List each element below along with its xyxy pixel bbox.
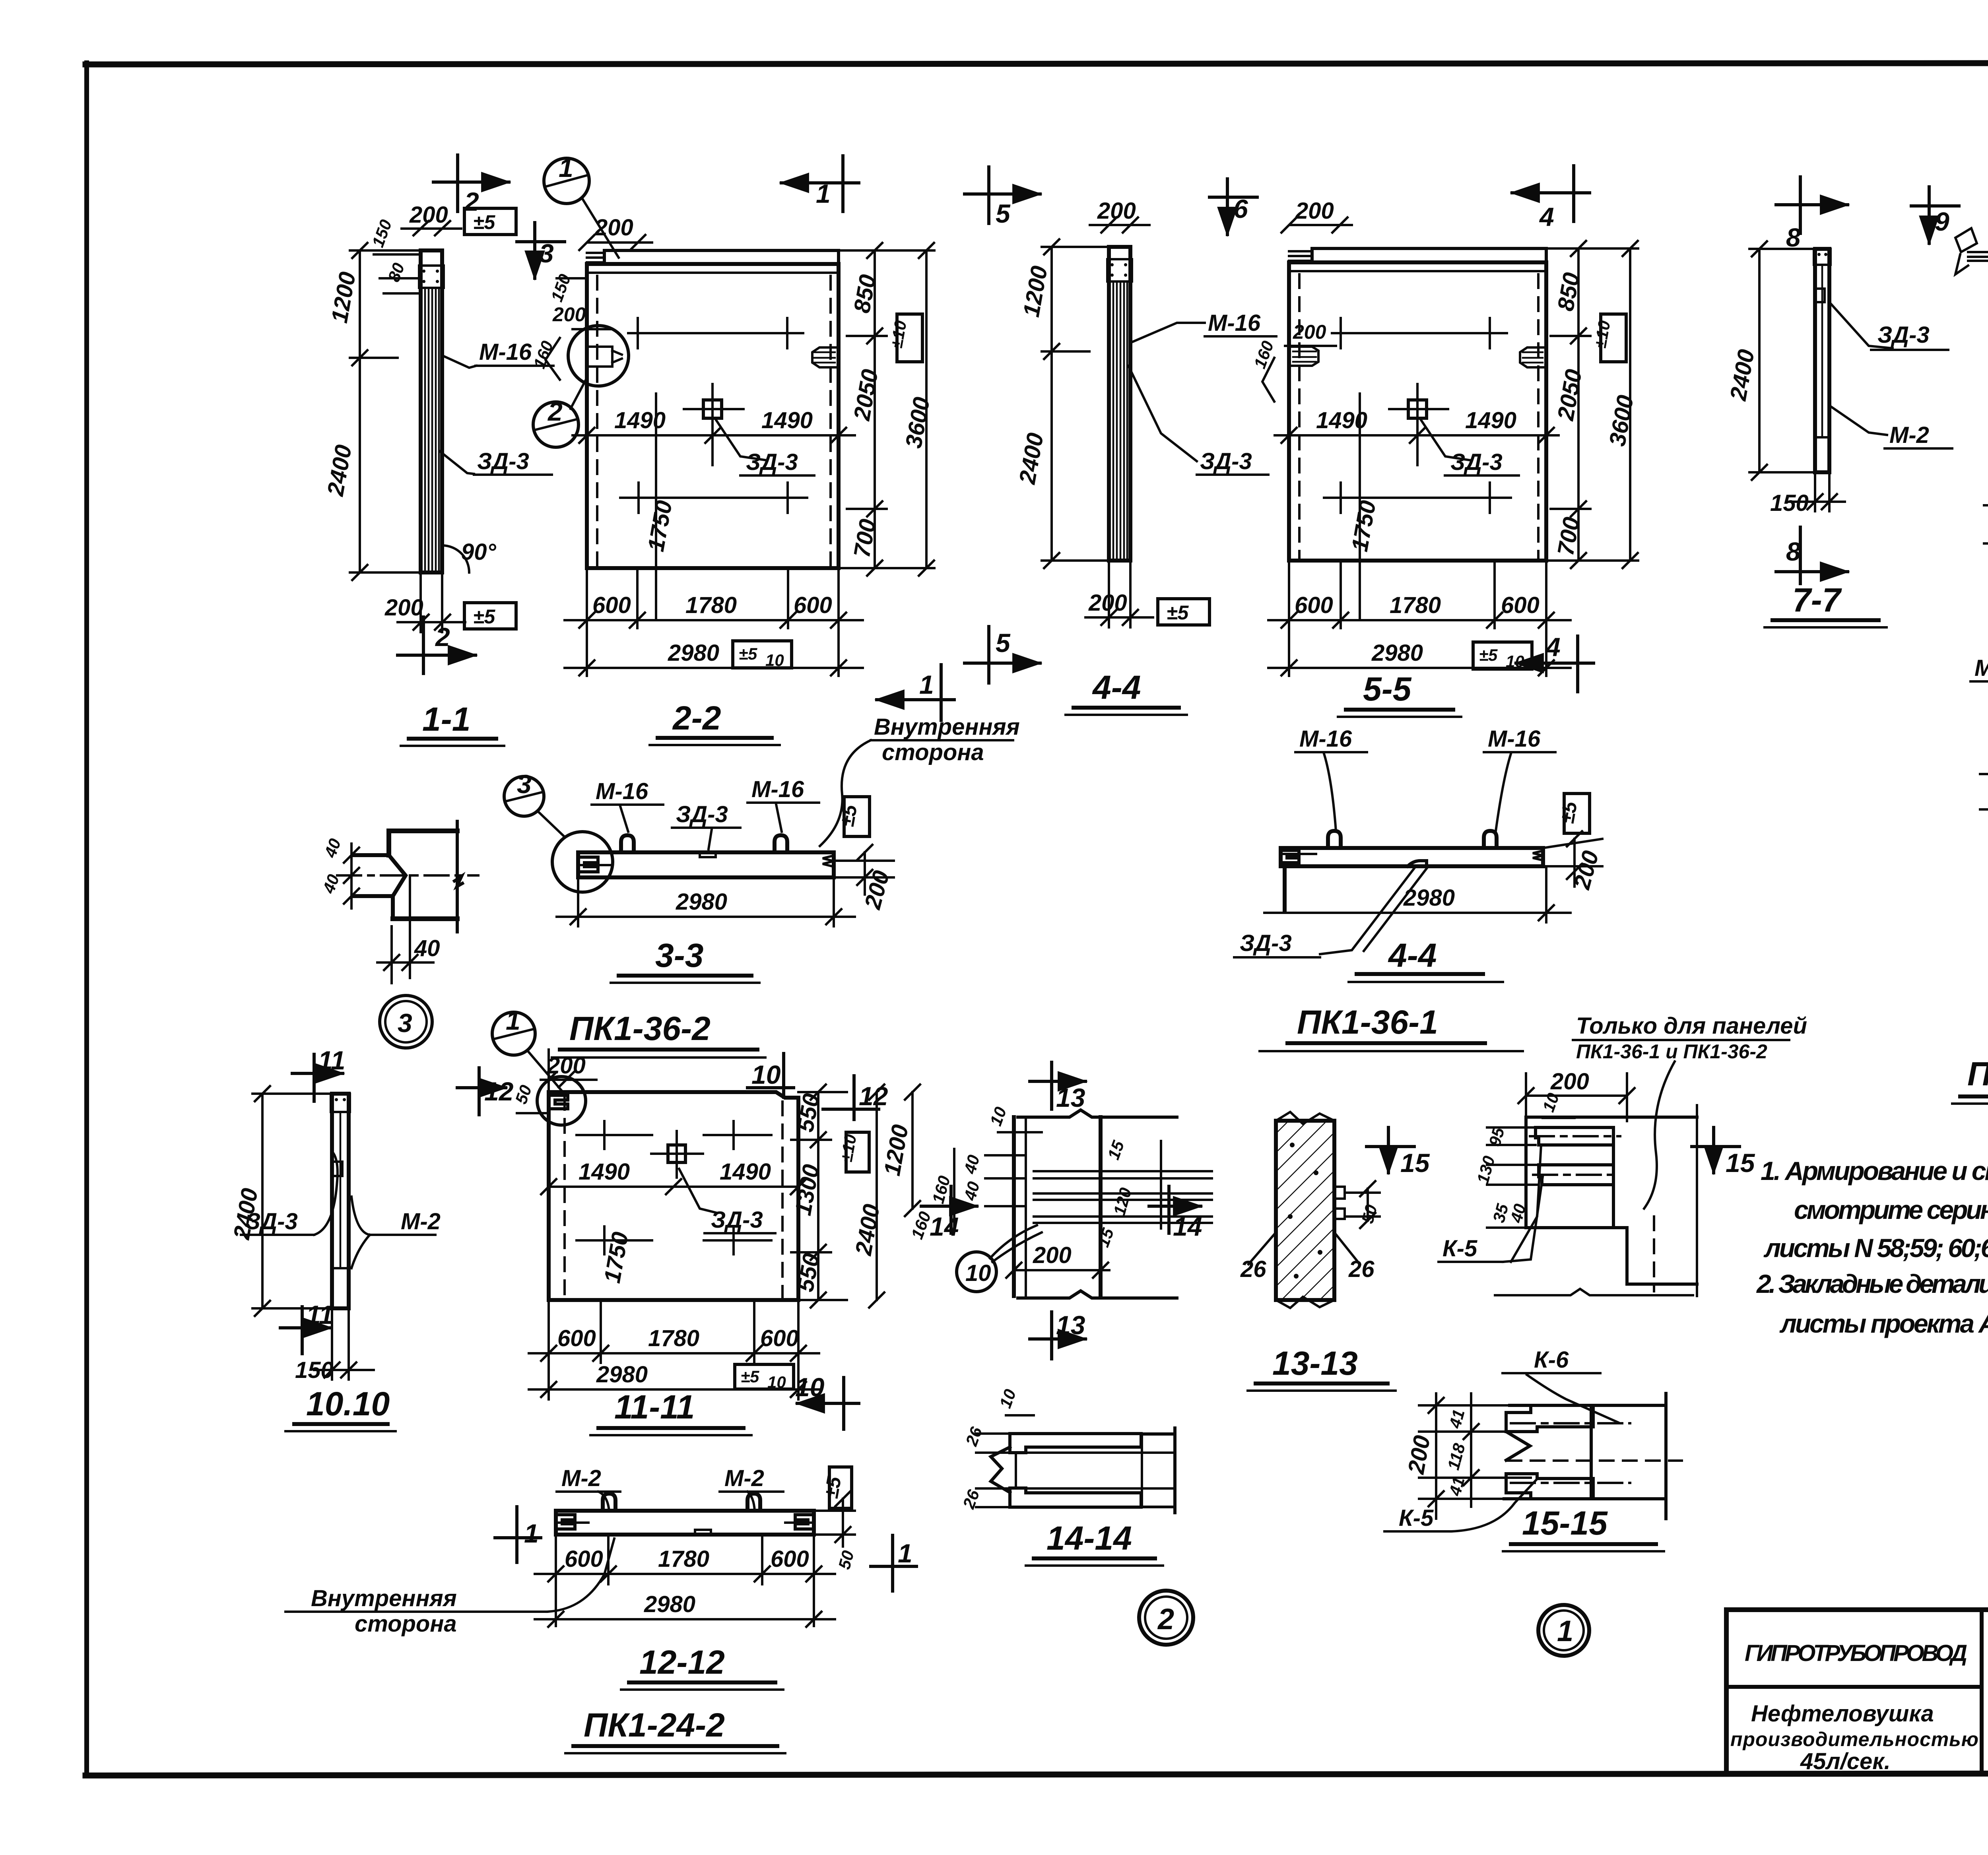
view label 5-5: [1338, 670, 1461, 717]
dim chain 1200 / 2400 left of 4-4: [1014, 239, 1109, 568]
svg-text:1490: 1490: [720, 1159, 771, 1185]
dim 200 right of 3-3: [834, 845, 895, 912]
svg-text:Нефтеловушка: Нефтеловушка: [1751, 1701, 1934, 1727]
title block: [1726, 1610, 1988, 1774]
embed ZD-3 centre of 2-2: [684, 384, 814, 475]
corner mitre detail (detail 3): [337, 821, 478, 932]
svg-text:ЗД-3: ЗД-3: [246, 1209, 298, 1234]
svg-text:2980: 2980: [676, 889, 727, 915]
dim 200 right of 4-4 bar: [1543, 831, 1604, 892]
svg-text:К-5: К-5: [1442, 1236, 1477, 1261]
svg-text:М-2: М-2: [724, 1465, 764, 1491]
svg-text:600: 600: [771, 1546, 809, 1572]
svg-text:2. Закладные детали ЗД-3; М-: 2. Закладные детали ЗД-3; М-2 и М-16 смо…: [1756, 1269, 1988, 1298]
svg-text:1: 1: [816, 179, 831, 208]
view label 4-4 (bar): [1349, 937, 1503, 982]
section mark 11 (bottom of 10-10): [280, 1300, 334, 1354]
view 14-14 sandwich section: [991, 1428, 1175, 1513]
svg-text:5: 5: [996, 628, 1011, 658]
svg-text:1: 1: [1557, 1614, 1573, 1647]
bottom dim 2980 of 2-2: [565, 640, 863, 675]
svg-text:листы N 58;59; 60;69;71; 72;73: листы N 58;59; 60;69;71; 72;73; 80; 85.: [1763, 1233, 1988, 1263]
bottom dim chain 600 1780 600 of 5-5: [1268, 561, 1571, 676]
section mark 10 (bottom right of 11-11): [795, 1372, 859, 1429]
section mark 2 (top): [433, 155, 509, 216]
dim 200 top of 5-5: [1281, 198, 1352, 233]
svg-text:45л/сек.: 45л/сек.: [1800, 1748, 1891, 1774]
svg-text:Внутренняя: Внутренняя: [874, 714, 1020, 740]
svg-text:1490: 1490: [1465, 407, 1516, 433]
section mark 15 (left, near 13-13): [1367, 1127, 1430, 1178]
view 11-11 panel outline: [549, 1092, 798, 1300]
svg-text:М-16: М-16: [1208, 310, 1261, 336]
embed M-16 left edge of 2-2: [530, 303, 629, 386]
view label 7-7: [1765, 581, 1887, 627]
svg-text:1490: 1490: [614, 407, 666, 433]
detail callout circle 1 of 11-11: [492, 1006, 565, 1094]
svg-text:М-2: М-2: [401, 1209, 441, 1234]
svg-text:±5: ±5: [741, 1367, 759, 1386]
right dim chain 2050 3600 of 5-5: [1546, 241, 1639, 568]
dim 2980 of 4-4 bar: [1264, 866, 1571, 922]
svg-text:М-2: М-2: [1889, 422, 1929, 448]
svg-text:6: 6: [1233, 194, 1248, 223]
view 5-5 panel: top formwork bar: [1289, 248, 1546, 262]
svg-text:1490: 1490: [579, 1159, 630, 1185]
view label 14-14: [1026, 1519, 1163, 1566]
svg-text:10: 10: [965, 1260, 991, 1286]
outer chain 1200 160 with section 14 marks: [879, 1085, 977, 1242]
svg-text:2-2: 2-2: [672, 699, 721, 737]
view label 11-11: [590, 1388, 751, 1435]
dims of edge detail: [928, 1104, 1161, 1278]
view 5-5 panel outline: [1289, 262, 1546, 561]
svg-text:1780: 1780: [648, 1325, 699, 1351]
section mark 1 (top right): [781, 156, 859, 212]
leader K-5 of view 15-15: [1384, 1479, 1537, 1531]
svg-text:15-15: 15-15: [1522, 1504, 1608, 1542]
dim 1490 1490 in 11-11: [541, 1159, 806, 1194]
svg-text:13: 13: [1056, 1310, 1085, 1340]
svg-text:±5: ±5: [1479, 646, 1498, 664]
leader ZD-3 on 4-4: [1128, 366, 1268, 475]
view 9-9 leaders M-2 ZD-3 M-2: [1971, 655, 1988, 726]
embed right edge of 5-5: [1520, 347, 1546, 367]
embed ZD-3 centre of 5-5: [1389, 384, 1519, 475]
embed plate M-16 at top: [419, 266, 444, 288]
section mark 12 (top left of 11-11): [457, 1068, 514, 1115]
bottom dim 2980 of 8-8: [1984, 516, 1988, 551]
svg-text:М-16: М-16: [596, 778, 648, 804]
dim chain 600 1780 600 of 9-9: [1980, 737, 1988, 819]
view 2-2 panel: top formwork bar: [587, 250, 839, 264]
view 2-2 panel outline: [587, 264, 839, 568]
svg-text:2980: 2980: [668, 640, 719, 666]
svg-text:М-16: М-16: [1488, 726, 1541, 752]
panel edge detail with callout 10: [1014, 1110, 1212, 1298]
bottom dim chain 600 1780 600 of 11-11: [529, 1300, 819, 1399]
svg-text:±5: ±5: [1167, 602, 1189, 624]
view 12-12 leaders M-2 M-2: [557, 1465, 783, 1511]
svg-text:600: 600: [760, 1325, 799, 1351]
svg-text:1: 1: [524, 1519, 539, 1548]
leaders ZD-3 / M-2 on 10-10: [241, 1153, 441, 1268]
svg-text:2: 2: [1157, 1603, 1174, 1636]
dim 200 top of 2-2: [579, 215, 652, 250]
svg-text:К-6: К-6: [1534, 1347, 1569, 1373]
svg-text:2980: 2980: [1371, 640, 1423, 666]
notes heading: [1952, 1055, 1988, 1104]
section mark 13 (bottom of edge detail): [1030, 1310, 1085, 1359]
dim 200 +-5 top of 1-1: [402, 202, 516, 235]
detail callout circle 2: [533, 381, 585, 447]
bottom dim chain 600 600 of 8-8: [1984, 474, 1988, 553]
detail callout circle 3 (small): [504, 769, 565, 837]
centre line row 2 of 11-11: [577, 1226, 771, 1285]
view label 10.10: [285, 1385, 396, 1431]
dim 2980 of 12-12: [535, 1591, 835, 1627]
dim 2400 left of 10-10: [229, 1086, 332, 1316]
svg-text:200: 200: [1033, 1242, 1072, 1268]
dim 200 top of 11-11: [537, 1050, 596, 1125]
svg-text:±5: ±5: [836, 803, 862, 829]
svg-text:200: 200: [409, 202, 448, 228]
svg-text:±5: ±5: [739, 644, 757, 663]
dim 200 +-5 bottom of 4-4: [1085, 561, 1209, 627]
svg-text:ЗД-3: ЗД-3: [746, 449, 798, 475]
view 12-12 lifting loops: [603, 1494, 760, 1511]
tolerance box +-5 of 3-3: [836, 797, 870, 836]
svg-text:7-7: 7-7: [1792, 581, 1842, 619]
svg-text:листы проекта АС-20, 24, 26.: листы проекта АС-20, 24, 26.: [1779, 1309, 1988, 1338]
svg-text:26: 26: [1348, 1256, 1375, 1282]
svg-text:±5: ±5: [473, 605, 495, 628]
section mark 1 (left of 12-12): [495, 1507, 541, 1562]
section mark 4 (bottom right): [1516, 632, 1594, 692]
svg-text:сторона: сторона: [882, 739, 984, 765]
inner side note (for 3-3): [820, 714, 1020, 846]
svg-text:±5: ±5: [1556, 799, 1582, 825]
svg-text:200: 200: [552, 303, 586, 326]
detail 3 dims 40: [319, 836, 440, 983]
svg-text:1: 1: [919, 670, 934, 699]
svg-text:5-5: 5-5: [1363, 670, 1412, 708]
leader ZD-3 on 1-1: [440, 448, 552, 475]
view 12-12 panel bar: [556, 1511, 814, 1535]
panel joint detail (15 top): [1495, 1105, 1697, 1296]
svg-text:11: 11: [306, 1300, 334, 1329]
svg-text:М-16: М-16: [479, 339, 532, 365]
view 4-4 (PK1-36-1) panel bar: [1281, 848, 1543, 910]
centre line row 1 of 2-2: [628, 318, 803, 348]
svg-text:13-13: 13-13: [1272, 1345, 1358, 1382]
svg-text:смотрите серию 3.900-2, выпу: смотрите серию 3.900-2, выпуск2: [1794, 1195, 1988, 1224]
svg-text:1-1: 1-1: [422, 700, 470, 738]
note: only for panels PK1-36-1, PK1-36-2: [1573, 1013, 1807, 1209]
svg-text:8: 8: [1786, 223, 1801, 252]
svg-text:1780: 1780: [685, 592, 737, 618]
svg-text:11-11: 11-11: [614, 1388, 695, 1426]
section mark 13 (top of edge detail): [1030, 1062, 1085, 1112]
svg-text:1: 1: [506, 1006, 520, 1035]
svg-text:М-2: М-2: [561, 1465, 601, 1491]
dim 150 bottom of 10-10: [295, 1308, 374, 1383]
svg-text:150: 150: [295, 1357, 334, 1383]
svg-text:1: 1: [898, 1539, 912, 1568]
svg-text:1490: 1490: [1316, 407, 1367, 433]
dim 2400 left of 7-7: [1725, 241, 1815, 480]
view 4-4 (PK1-36-1) leaders M-16 M-16: [1295, 726, 1555, 831]
small dims 150 80 top left of 1-1: [368, 217, 421, 293]
svg-text:12-12: 12-12: [639, 1643, 725, 1681]
svg-text:2980: 2980: [1403, 885, 1455, 911]
view 1-1 panel side strip: [419, 250, 444, 572]
svg-text:8: 8: [1786, 537, 1801, 566]
dim 150 bottom of 7-7: [1770, 472, 1845, 516]
small dim 50 left of 11-11: [511, 1083, 549, 1113]
svg-text:1780: 1780: [658, 1546, 709, 1572]
view 10-10 panel side strip: [331, 1094, 350, 1308]
dim 1490 1490 in 2-2: [573, 394, 855, 620]
svg-text:2980: 2980: [644, 1591, 695, 1617]
view 7-7 panel side strip: [1814, 249, 1831, 472]
svg-text:10: 10: [751, 1060, 781, 1089]
svg-text:10: 10: [795, 1372, 825, 1402]
section mark 6 (top of 5-5): [1209, 179, 1257, 235]
embed M-16 right edge of 2-2: [812, 347, 839, 367]
svg-text:13: 13: [1056, 1083, 1085, 1112]
svg-text:200: 200: [594, 215, 633, 241]
view 4-4 panel side strip: [1107, 247, 1132, 561]
view label 13-13: [1248, 1345, 1396, 1391]
svg-text:15: 15: [1400, 1148, 1430, 1178]
dim chain 1200 / 2400 left of 1-1: [322, 243, 421, 580]
svg-text:10.10: 10.10: [306, 1385, 390, 1422]
dims 26 50 26 of 13-13: [1240, 1181, 1381, 1282]
svg-text:4-4: 4-4: [1092, 669, 1141, 706]
angle 90 deg mark: [442, 539, 497, 572]
svg-text:ПК1-24-2: ПК1-24-2: [584, 1706, 725, 1744]
dim chain 600 1780 600 of 12-12: [535, 1535, 835, 1626]
svg-text:2: 2: [547, 397, 563, 426]
leader ZD-3 on 7-7: [1829, 302, 1948, 350]
right dim chain 850 2050 700 of 2-2: [839, 243, 935, 576]
section mark 2 (bottom): [398, 617, 476, 673]
svg-text:М-2: М-2: [1974, 655, 1988, 681]
view label 15-15: [1503, 1504, 1664, 1551]
svg-text:Внутренняя: Внутренняя: [311, 1585, 457, 1611]
svg-text:производительностью: производительностью: [1730, 1728, 1978, 1750]
leader M-2 on 7-7: [1829, 406, 1952, 448]
svg-text:10: 10: [767, 1373, 786, 1391]
svg-text:1780: 1780: [1390, 592, 1441, 618]
svg-text:600: 600: [592, 592, 631, 618]
view label 4-4: [1066, 669, 1187, 715]
dims 200 41 118 41 of 15-15: [1403, 1393, 1531, 1519]
svg-text:200: 200: [1295, 198, 1334, 224]
bottom dim 2980 of 5-5: [1268, 640, 1571, 675]
svg-text:40: 40: [414, 935, 440, 961]
tolerance box +-5 of 4-4 bar: [1556, 794, 1590, 833]
svg-text:9: 9: [1935, 207, 1949, 236]
svg-text:М-16: М-16: [751, 776, 804, 802]
centre line row 1 of 5-5: [1332, 318, 1507, 348]
svg-text:3: 3: [539, 239, 554, 268]
dims of joint detail (15 top): [1473, 1069, 1635, 1228]
svg-text:600: 600: [1501, 592, 1540, 618]
svg-text:10: 10: [765, 651, 784, 669]
centre line row 1 of 11-11: [577, 1121, 771, 1149]
svg-text:3: 3: [398, 1008, 412, 1038]
view label 12-12: [621, 1643, 783, 1690]
leader M-16 on 4-4: [1132, 310, 1276, 342]
centre line row 2 of 5-5: [1324, 483, 1511, 553]
svg-text:600: 600: [557, 1325, 596, 1351]
view 13-13 wall section: [1276, 1112, 1345, 1308]
detail big circle on 3-3 left end: [552, 832, 613, 892]
panel mark PK1-36-1: [1260, 1003, 1523, 1051]
svg-text:26: 26: [1240, 1256, 1266, 1282]
section mark 15 (right of joint detail): [1692, 1127, 1755, 1178]
section mark 9 (top of 8-8): [1911, 187, 1959, 243]
reference circle 3 (double): [380, 995, 432, 1048]
reference circle 1 (double): [1538, 1605, 1589, 1656]
view 3-3 leaders M-16 ZD-3 M-16: [592, 776, 819, 849]
svg-text:4: 4: [1539, 202, 1554, 231]
svg-text:14-14: 14-14: [1046, 1519, 1132, 1557]
svg-text:ПК1-36-2: ПК1-36-2: [569, 1010, 711, 1047]
right dim chain 550 1300 550 of 11-11: [790, 1085, 885, 1308]
section mark 5 (bottom): [965, 627, 1040, 683]
bottom dim chain 600 1780 600 of 2-2: [565, 568, 863, 676]
section mark 8 (top): [1776, 177, 1848, 252]
view label 3-3: [611, 937, 759, 983]
svg-text:12: 12: [484, 1077, 514, 1106]
section mark 8 (bottom): [1776, 527, 1848, 584]
svg-text:1. Армирование и спецификацию: 1. Армирование и спецификацию панелей: [1761, 1156, 1988, 1186]
dim 200 top of 4-4: [1090, 198, 1149, 233]
corner stub detail top-left of 8-8: [1955, 228, 1977, 274]
panel mark PK1-24-2: [565, 1706, 785, 1753]
svg-text:ЗД-3: ЗД-3: [1240, 930, 1292, 956]
dim 1490 1490 in 5-5: [1275, 394, 1559, 620]
view 8-8 panel: top formwork bar: [1968, 249, 1988, 263]
dim 2980 of 9-9: [1980, 782, 1988, 817]
svg-text:200: 200: [547, 1053, 586, 1079]
svg-text:ЗД-3: ЗД-3: [676, 801, 728, 827]
svg-text:600: 600: [565, 1546, 603, 1572]
svg-text:М-16: М-16: [1299, 726, 1352, 752]
view label 2-2: [650, 699, 780, 745]
section mark 5 (top): [965, 167, 1040, 228]
svg-text:200: 200: [1550, 1069, 1589, 1094]
svg-text:ПК1-36-1 и ПК1-36-2: ПК1-36-1 и ПК1-36-2: [1576, 1040, 1767, 1063]
svg-text:1: 1: [559, 153, 573, 182]
section mark 4 (top right): [1512, 166, 1590, 231]
embed left edge of 5-5 with dims 200/160: [1250, 321, 1336, 402]
svg-text:200: 200: [384, 595, 423, 621]
svg-text:12: 12: [859, 1081, 888, 1111]
svg-text:10: 10: [1506, 652, 1524, 671]
inner side note (for 12-12): [285, 1539, 614, 1637]
leader K-5 of joint detail: [1439, 1145, 1543, 1262]
dim 50 right of 12-12: [814, 1491, 858, 1571]
section marks 10 and 12 (top right of 11-11): [747, 1054, 888, 1120]
svg-text:150: 150: [1770, 490, 1809, 516]
section mark 3 (top of 2-2): [517, 223, 565, 278]
svg-text:600: 600: [1295, 592, 1333, 618]
svg-text:4-4: 4-4: [1388, 937, 1437, 974]
svg-text:1490: 1490: [761, 407, 813, 433]
leader K-6 of view 15-15: [1503, 1347, 1618, 1422]
svg-text:11: 11: [318, 1046, 346, 1075]
leader M-16 on 1-1: [443, 339, 553, 368]
svg-text:200: 200: [1097, 198, 1136, 224]
svg-text:200: 200: [1293, 321, 1326, 343]
svg-text:Примечания:: Примечания:: [1967, 1055, 1988, 1092]
svg-text:3-3: 3-3: [655, 937, 703, 974]
view 4-4 (PK1-36-1) lifting loops: [1328, 831, 1497, 848]
dim 200 +-5 bottom of 1-1: [384, 572, 516, 632]
section mark 14 (right of edge detail): [1149, 1186, 1202, 1241]
svg-text:ЗД-3: ЗД-3: [1200, 448, 1252, 474]
svg-text:ЗД-3: ЗД-3: [1450, 449, 1503, 475]
svg-text:ПК1-36-1: ПК1-36-1: [1297, 1003, 1438, 1041]
svg-text:±5: ±5: [473, 211, 495, 233]
section mark 1 (bottom right): [877, 665, 954, 720]
svg-text:200: 200: [1088, 590, 1127, 616]
bottom dim 2980 of 11-11: [529, 1362, 819, 1397]
view 15-15 key joint: [1504, 1393, 1682, 1519]
svg-text:ГИПРОТРУБОПРОВОД: ГИПРОТРУБОПРОВОД: [1745, 1640, 1967, 1666]
svg-text:2980: 2980: [596, 1362, 648, 1387]
view 3-3 lifting loops: [621, 835, 787, 852]
svg-text:Только для панелей: Только для панелей: [1576, 1013, 1807, 1039]
callout circle 10: [957, 1225, 1042, 1292]
svg-text:3: 3: [517, 769, 532, 799]
view label 1-1: [401, 700, 504, 746]
svg-text:±5: ±5: [820, 1475, 846, 1500]
dim 150 top left of 2-2: [547, 272, 587, 304]
dims 26 10 26 of 14-14: [959, 1387, 1034, 1512]
section mark 11 (top of 10-10): [292, 1046, 346, 1101]
section mark 1 (right of 12-12): [871, 1535, 916, 1591]
svg-text:14: 14: [1173, 1212, 1202, 1241]
tolerance box +-5 of 12-12: [820, 1467, 852, 1508]
reference circle 2 (double): [1139, 1591, 1193, 1645]
svg-text:5: 5: [996, 199, 1011, 228]
centre line row 2 of 2-2: [620, 483, 807, 553]
svg-text:15: 15: [1726, 1148, 1755, 1178]
embed ZD-3 centre of 11-11: [651, 1131, 775, 1233]
detail callout circle 1: [544, 153, 619, 258]
svg-text:ЗД-3: ЗД-3: [477, 448, 529, 474]
panel mark PK1-36-2: [552, 1010, 765, 1058]
svg-text:ЗД-3: ЗД-3: [711, 1207, 763, 1233]
dim 2980 of 3-3: [557, 877, 855, 926]
svg-text:сторона: сторона: [355, 1611, 457, 1637]
leader ZD-3 of 4-4 bar: [1234, 867, 1427, 957]
svg-text:90°: 90°: [461, 539, 497, 565]
svg-text:600: 600: [794, 592, 832, 618]
svg-text:К-5: К-5: [1399, 1505, 1434, 1531]
svg-text:ЗД-3: ЗД-3: [1877, 322, 1930, 348]
view 3-3 panel bar: [578, 852, 834, 877]
